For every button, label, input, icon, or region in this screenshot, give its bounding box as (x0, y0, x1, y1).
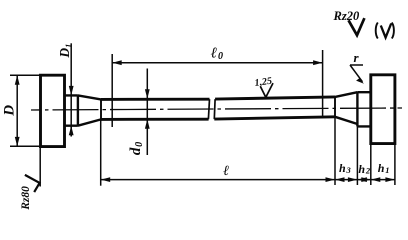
Rz80 check bottom left (25, 175, 40, 192)
left cone (78, 95, 101, 125)
rod-cone junction right (334, 97, 336, 117)
D arrow up (15, 75, 20, 85)
extension line bottom-left (D bottom) (10, 145, 41, 147)
arrows at 370.8 (361, 177, 371, 182)
break edge right (213, 99, 216, 119)
l extension left (below rod) (100, 119, 102, 185)
right cone (335, 92, 357, 124)
svg-text:Rz20: Rz20 (333, 9, 360, 23)
l arrow right / h3 left arrow at 335 (326, 177, 336, 182)
roughness check 1,25 on rod (260, 83, 273, 97)
cone-rod junction left (100, 99, 102, 119)
left head (41, 75, 65, 146)
svg-text:ℓ0: ℓ0 (211, 45, 223, 62)
break edge left (208, 99, 209, 119)
arrows at 357.4 (348, 177, 358, 182)
dimension D1 line lower (70, 126, 72, 137)
svg-text:D: D (2, 105, 18, 117)
l0 extension left (111, 54, 113, 127)
r leader line (350, 65, 363, 82)
l0 dimension line (112, 62, 322, 64)
h1 arrow right (385, 177, 395, 182)
r leader arrowhead (356, 78, 364, 84)
Rz80 extension (head left edge down) (39, 147, 41, 187)
h1 extension left (head left edge ext) (370, 144, 372, 185)
svg-text:h3: h3 (339, 161, 351, 175)
right cone-neck junction (356, 92, 358, 126)
h3 extension (below rod-cone junction) (334, 117, 336, 185)
h2 extension (356, 126, 358, 185)
d0 arrow up (145, 119, 150, 129)
l arrow left (101, 177, 111, 182)
svg-text:D1: D1 (57, 44, 73, 59)
roughness check Rz20 top right (349, 18, 365, 35)
D arrow down (15, 137, 20, 147)
l0 arrow right (313, 60, 323, 65)
rod right piece (214, 97, 335, 119)
dimension d0 line (146, 69, 148, 156)
svg-text:h1: h1 (378, 161, 390, 175)
h1 extension right (head right edge ext) (394, 144, 396, 185)
l dimension line + h chain (101, 179, 395, 181)
(V) parentheses and check (376, 23, 378, 39)
right neck (357, 92, 370, 126)
extension line top-left (D top) (10, 74, 41, 76)
centerline (31, 108, 402, 110)
svg-text:Rz80: Rz80 (20, 186, 32, 211)
svg-text:h2: h2 (358, 162, 370, 176)
left neck D1 cylinder (65, 95, 78, 125)
l0 arrow left (112, 60, 122, 65)
svg-text:r: r (354, 50, 360, 65)
r leader underline (350, 64, 363, 66)
svg-text:ℓ: ℓ (223, 164, 229, 179)
D1 arrow up (69, 126, 74, 136)
right head (371, 75, 395, 144)
l0 extension right (322, 50, 324, 118)
d0 arrow down (145, 89, 150, 99)
svg-text:1,25: 1,25 (254, 76, 273, 89)
rod left piece (101, 99, 210, 119)
dimension D1 line upper (70, 43, 72, 136)
svg-text:d0: d0 (128, 142, 145, 155)
dimension D line (16, 75, 18, 146)
D1 arrow down (69, 86, 74, 96)
